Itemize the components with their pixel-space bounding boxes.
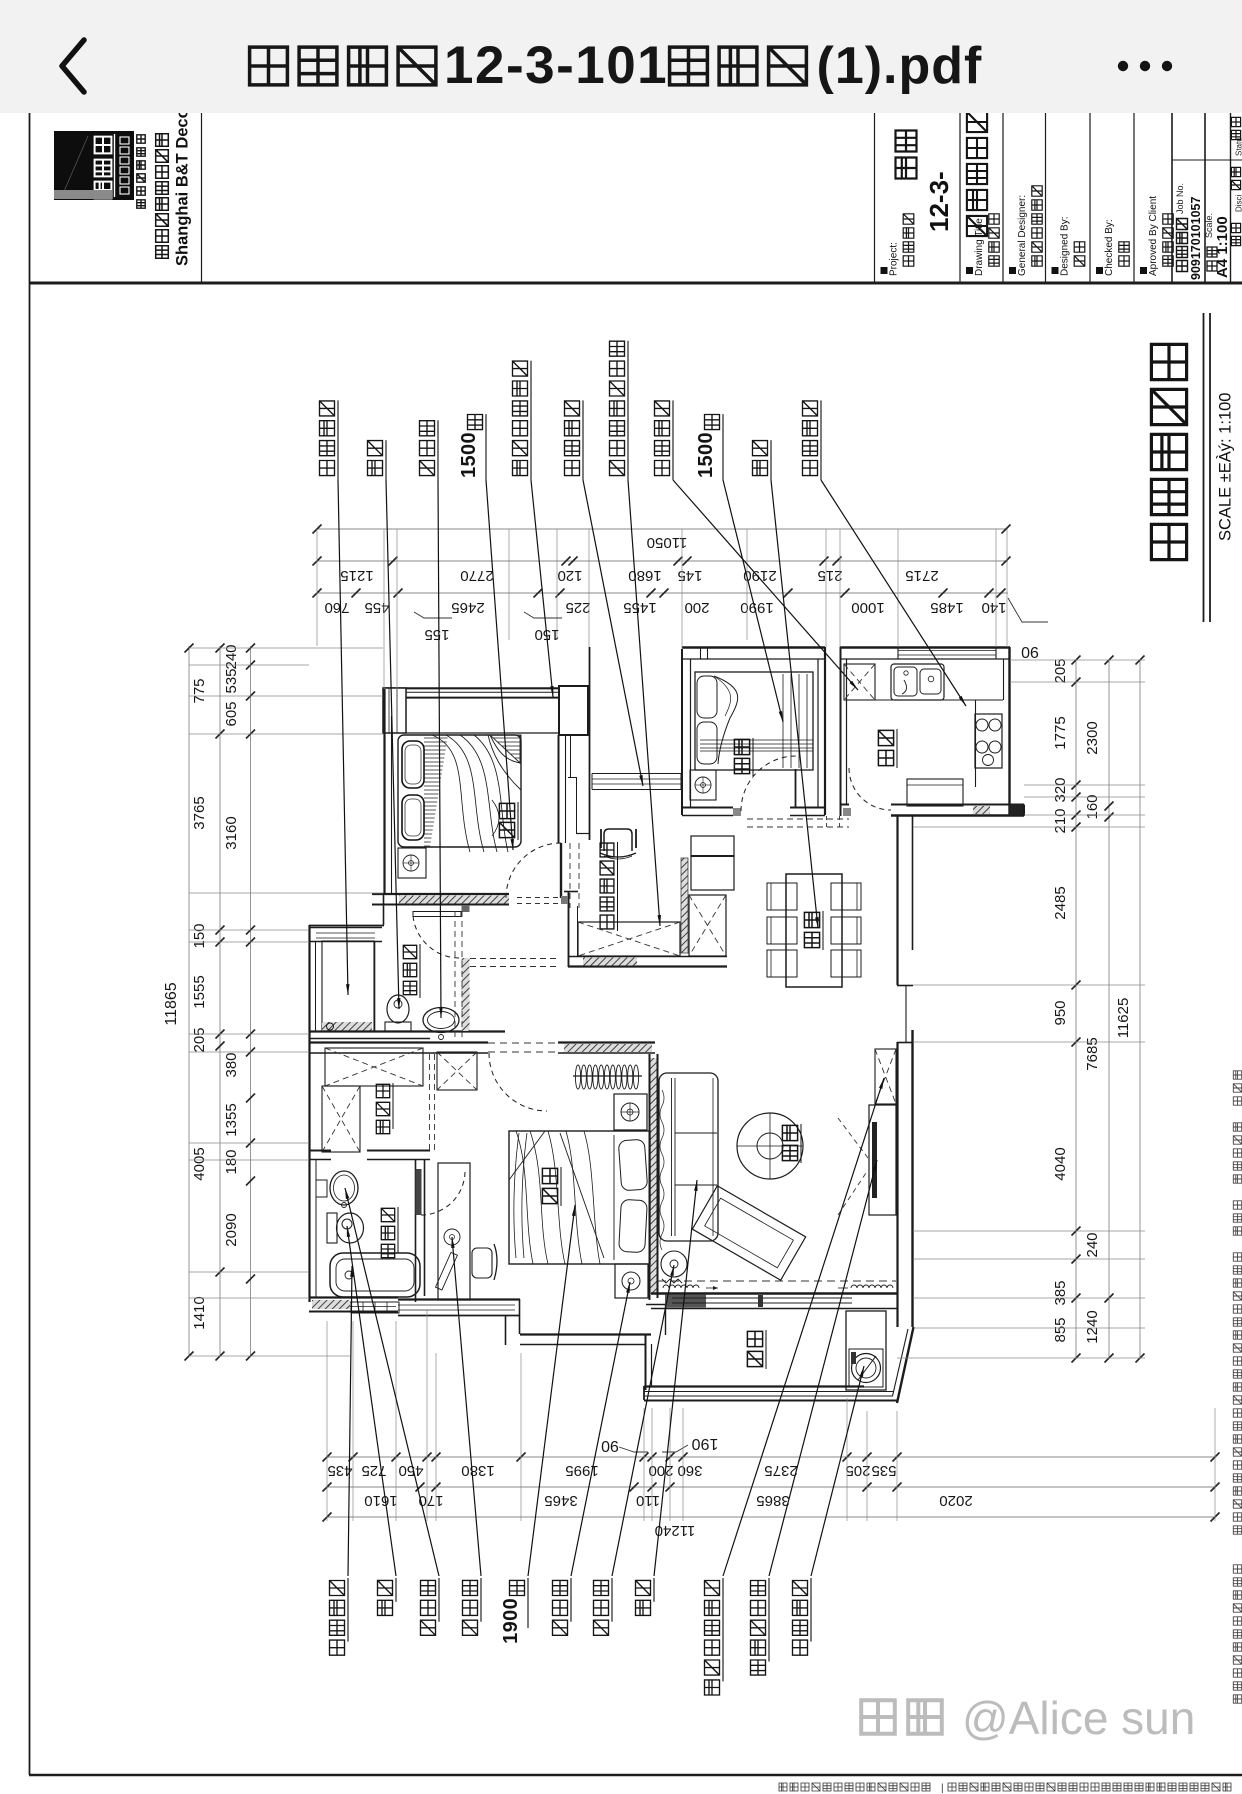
footer tiny notes row bbox=[779, 1783, 787, 1791]
sheet left border bbox=[29, 112, 31, 1775]
dining table bbox=[786, 874, 842, 987]
master wardrobe box bbox=[437, 1052, 477, 1090]
svg-text:950: 950 bbox=[1052, 1000, 1069, 1025]
corridor dashed lines bbox=[454, 911, 456, 1040]
svg-text:SCALE ±EÀý: 1:100: SCALE ±EÀý: 1:100 bbox=[1216, 393, 1235, 541]
TV cabinet bbox=[869, 1105, 896, 1215]
svg-text:2465: 2465 bbox=[451, 599, 484, 616]
svg-text:1610: 1610 bbox=[364, 1492, 397, 1509]
study hatch wall strip bbox=[681, 858, 688, 953]
svg-text:11050: 11050 bbox=[647, 534, 688, 551]
svg-text:205: 205 bbox=[191, 1027, 208, 1052]
master hanger rail bbox=[573, 1075, 642, 1077]
kitchen walls bbox=[840, 647, 842, 816]
top label 定制衣柜 bbox=[565, 401, 580, 476]
svg-text:855: 855 bbox=[1052, 1317, 1069, 1342]
svg-text:1455: 1455 bbox=[623, 599, 656, 616]
svg-text:Project:: Project: bbox=[889, 242, 900, 276]
stove bbox=[975, 714, 1002, 768]
top label 现场制作收纳柜 bbox=[610, 341, 625, 475]
bedroom2 nightstand bbox=[690, 770, 716, 800]
desk 电脑桌 bbox=[438, 1163, 470, 1300]
kitchen door swing bbox=[849, 768, 891, 810]
balcony south band bbox=[644, 1385, 864, 1387]
svg-text:1555: 1555 bbox=[191, 975, 208, 1008]
top label 飘窗做写字台 bbox=[513, 361, 528, 476]
svg-text:5: 5 bbox=[458, 455, 480, 466]
svg-text:Job No.: Job No. bbox=[1175, 183, 1185, 214]
title col Designed By bbox=[1052, 267, 1059, 274]
svg-text:385: 385 bbox=[1052, 1280, 1069, 1305]
study closet right X bbox=[689, 895, 726, 956]
svg-text:2715: 2715 bbox=[905, 567, 938, 584]
bedroom2 label 次卧 bbox=[734, 758, 749, 773]
top extension lines bbox=[316, 529, 318, 646]
title block column dividers bbox=[874, 112, 876, 283]
svg-text:760: 760 bbox=[324, 599, 349, 616]
title col Scale bbox=[1207, 261, 1217, 271]
svg-text:605: 605 bbox=[223, 701, 240, 726]
bedroom1 west wall bbox=[383, 689, 385, 893]
svg-text:2485: 2485 bbox=[1052, 886, 1069, 919]
top label 1500床 bbox=[458, 415, 483, 479]
bottom label 成品浴缸 bbox=[330, 1581, 345, 1656]
left dimension chain lines bbox=[188, 646, 190, 1356]
svg-text:3465: 3465 bbox=[544, 1492, 577, 1509]
title col Checked By bbox=[1096, 267, 1103, 274]
svg-text:450: 450 bbox=[398, 1462, 423, 1479]
bottom label 马桶 bbox=[378, 1580, 393, 1615]
corridor dashes to dining bbox=[747, 818, 849, 820]
dining chairs bbox=[767, 883, 797, 910]
svg-text:Scale.: Scale. bbox=[1204, 213, 1214, 238]
bathroom1 south wall bbox=[309, 1030, 505, 1032]
bedroom1 bed 1500 bbox=[398, 735, 521, 847]
storage cabinet boxes bbox=[691, 836, 734, 856]
bottom chain ticks bbox=[323, 1453, 332, 1462]
bedroom2 south wall bbox=[682, 807, 733, 809]
bottom label 床头柜 bbox=[553, 1580, 568, 1635]
svg-text:2090: 2090 bbox=[223, 1213, 240, 1246]
svg-text:0: 0 bbox=[500, 1598, 522, 1609]
top label 定制橱柜 bbox=[803, 401, 818, 476]
entry east wall column bbox=[589, 647, 591, 840]
watermark 知乎 @Alice sun bbox=[861, 1700, 895, 1734]
svg-text:0: 0 bbox=[458, 444, 480, 455]
svg-text:90: 90 bbox=[1021, 643, 1039, 660]
svg-text:320: 320 bbox=[1052, 777, 1069, 802]
bedroom1 label 卧室 bbox=[499, 822, 514, 837]
study south wall bbox=[568, 956, 727, 958]
bathroom1 west wall bbox=[308, 925, 310, 1038]
left extension lines bbox=[189, 647, 383, 649]
title col Project bbox=[881, 267, 888, 274]
svg-text:Checked By:: Checked By: bbox=[1104, 219, 1115, 276]
svg-text:1240: 1240 bbox=[1084, 1310, 1101, 1343]
svg-text:4005: 4005 bbox=[191, 1147, 208, 1180]
shoe cabinet bbox=[875, 1049, 896, 1104]
bath2 toilet bbox=[327, 1213, 337, 1243]
title col Job No bbox=[1177, 261, 1188, 272]
bath2 east wall + door panel bbox=[415, 1160, 417, 1302]
bedroom1/bath south wall with hatch bbox=[372, 893, 509, 895]
master door swing bbox=[489, 1053, 547, 1111]
right chain ticks bbox=[1072, 656, 1081, 665]
header bar bbox=[0, 0, 1242, 113]
logo slogan tiny text bbox=[137, 135, 145, 143]
title col Status partial bbox=[1231, 117, 1240, 126]
bottom dimension chain lines bbox=[327, 1456, 1215, 1458]
bedroom2 door swing bbox=[741, 756, 796, 811]
title col General Designer bbox=[1009, 267, 1016, 274]
heating coil squiggles bbox=[663, 1285, 699, 1288]
title col Drawing Title bbox=[966, 267, 973, 274]
svg-text:1000: 1000 bbox=[851, 599, 884, 616]
svg-text:725: 725 bbox=[361, 1462, 386, 1479]
washer cabinet bbox=[846, 1311, 886, 1390]
svg-text:150: 150 bbox=[191, 923, 208, 948]
balcony west step bbox=[645, 1334, 647, 1390]
closet west wall bbox=[308, 1038, 310, 1160]
svg-text:1: 1 bbox=[500, 1633, 522, 1644]
svg-text:2020: 2020 bbox=[939, 1492, 972, 1509]
svg-text:1410: 1410 bbox=[191, 1296, 208, 1329]
bottom label 沙发 bbox=[636, 1580, 651, 1615]
bedroom1 nightstand bbox=[398, 848, 426, 878]
bath2 bathtub bbox=[330, 1253, 420, 1297]
nightstand A with flower bbox=[614, 1094, 647, 1130]
svg-text:1: 1 bbox=[458, 467, 480, 478]
top label 浴室柜 bbox=[420, 421, 435, 476]
svg-text:General Designer:: General Designer: bbox=[1017, 195, 1028, 276]
kitchen south wall bbox=[840, 804, 849, 806]
svg-text:Shanghai B&T Decorat: Shanghai B&T Decorat bbox=[174, 87, 192, 266]
balcony SE chamfer bbox=[897, 1327, 914, 1403]
svg-text:155: 155 bbox=[424, 626, 449, 643]
svg-text:5: 5 bbox=[695, 455, 717, 466]
toilet 1 bbox=[385, 1022, 411, 1031]
bathroom1 door panel + swing bbox=[413, 912, 461, 917]
bath2 sink bbox=[330, 1171, 358, 1205]
bath2 west wall bbox=[308, 1160, 310, 1302]
living label 客厅 bbox=[782, 1145, 797, 1160]
svg-text:160: 160 bbox=[1084, 794, 1101, 819]
bottom label 1900床 bbox=[500, 1580, 525, 1644]
master room label 卧室 bbox=[542, 1188, 557, 1203]
kitchen sink bbox=[891, 664, 944, 700]
top label 马桶 bbox=[368, 441, 383, 476]
entry cabinet 4-line band bbox=[592, 773, 681, 775]
top chain ticks bbox=[313, 557, 322, 566]
fridge X box bbox=[844, 664, 875, 700]
bottom label 洗手台 bbox=[421, 1580, 436, 1635]
dining east wall upper bbox=[896, 816, 898, 950]
kitchen lower cabinet bbox=[907, 779, 963, 806]
svg-text:Designed By:: Designed By: bbox=[1060, 217, 1071, 276]
balcony label 阳台 bbox=[747, 1351, 762, 1366]
svg-text:240: 240 bbox=[1084, 1232, 1101, 1257]
study desk chair bbox=[604, 829, 632, 851]
svg-text:140: 140 bbox=[981, 599, 1006, 616]
bottom label 电脑桌 bbox=[463, 1580, 478, 1635]
svg-text:9: 9 bbox=[500, 1621, 522, 1632]
kitchen label 厨房 bbox=[878, 750, 893, 765]
svg-text:110: 110 bbox=[636, 1492, 660, 1509]
closet sliding door dashes bbox=[517, 897, 564, 899]
svg-text:180: 180 bbox=[223, 1149, 240, 1174]
svg-text:360: 360 bbox=[677, 1462, 702, 1479]
svg-text:A4 1:100: A4 1:100 bbox=[1214, 216, 1231, 278]
svg-text:2300: 2300 bbox=[1084, 721, 1101, 754]
svg-text:1380: 1380 bbox=[461, 1462, 494, 1479]
svg-text:909170101057: 909170101057 bbox=[1189, 197, 1203, 280]
logo column divider bbox=[201, 112, 203, 283]
nightstand B with flower bbox=[615, 1264, 648, 1298]
svg-text:205: 205 bbox=[1052, 658, 1069, 683]
title block bottom rule bbox=[29, 282, 1242, 285]
bath2 south wall + window bbox=[309, 1296, 398, 1298]
closet label 衣帽间 bbox=[376, 1120, 389, 1133]
bottom label 现场制作鞋柜 bbox=[705, 1581, 720, 1696]
master bedroom south wall + bay bbox=[398, 1298, 520, 1300]
svg-text:|: | bbox=[941, 1783, 944, 1794]
vanity basin 1 bbox=[423, 1008, 459, 1033]
svg-text:12-3-101: 12-3-101 bbox=[444, 36, 668, 95]
svg-text:1: 1 bbox=[695, 467, 717, 478]
bath2 label 卫生间 bbox=[381, 1244, 394, 1257]
svg-text:0: 0 bbox=[695, 444, 717, 455]
top dimension chain lines bbox=[317, 528, 1007, 530]
bath2 north wall bbox=[309, 1150, 331, 1152]
bay inner face bbox=[406, 732, 558, 734]
svg-text:535: 535 bbox=[223, 668, 240, 693]
svg-text:215: 215 bbox=[817, 567, 842, 584]
study closet west L wall bbox=[568, 891, 570, 967]
svg-text:200: 200 bbox=[684, 599, 709, 616]
svg-text:11240: 11240 bbox=[655, 1522, 696, 1539]
closet wardrobe boxes bbox=[325, 1048, 423, 1086]
bedroom2 bed 1500 bbox=[695, 672, 813, 770]
svg-text:2770: 2770 bbox=[460, 567, 493, 584]
living floor dashed line bbox=[658, 1280, 896, 1282]
bedroom1 bay window band bbox=[383, 687, 588, 689]
top label 餐桌 bbox=[753, 441, 768, 476]
svg-text:775: 775 bbox=[191, 678, 208, 703]
right edge tiny vertical text bbox=[1233, 1071, 1241, 1079]
desk chair bbox=[472, 1248, 492, 1278]
sheet bottom border bbox=[29, 1774, 1242, 1776]
sofa bbox=[659, 1073, 718, 1241]
double rule beside drawing name bbox=[1203, 313, 1205, 622]
svg-text:11625: 11625 bbox=[1115, 998, 1132, 1039]
master east wall hatched bbox=[649, 1054, 651, 1300]
svg-text:2375: 2375 bbox=[764, 1462, 797, 1479]
svg-text:1485: 1485 bbox=[930, 599, 963, 616]
kitchen counter bbox=[847, 699, 1003, 701]
menu dots bbox=[1118, 61, 1128, 71]
svg-text:4040: 4040 bbox=[1052, 1147, 1069, 1180]
svg-text:Aproved By Client: Aproved By Client bbox=[1148, 196, 1159, 276]
svg-text:3765: 3765 bbox=[191, 796, 208, 829]
swing chair bbox=[737, 1113, 803, 1179]
svg-text:210: 210 bbox=[1052, 808, 1069, 833]
svg-text:1215: 1215 bbox=[340, 567, 373, 584]
svg-text:12-3-: 12-3- bbox=[924, 171, 954, 232]
svg-text:120: 120 bbox=[557, 567, 582, 584]
bathroom1 east door jamb bbox=[462, 905, 470, 912]
coffee table rotated bbox=[692, 1186, 805, 1280]
svg-text:11865: 11865 bbox=[163, 982, 180, 1025]
svg-text:0: 0 bbox=[458, 432, 480, 443]
outer wall step west of bedroom1 bbox=[383, 893, 385, 925]
bay window piers bbox=[383, 688, 406, 733]
bedroom2 box walls bbox=[681, 649, 683, 815]
svg-text:535: 535 bbox=[871, 1462, 896, 1479]
curtain wave master east bbox=[660, 1090, 664, 1250]
svg-text:1775: 1775 bbox=[1052, 716, 1069, 749]
svg-text:455: 455 bbox=[364, 599, 389, 616]
right extension lines bbox=[1010, 659, 1145, 661]
bottom label 成品电视柜 bbox=[751, 1581, 766, 1676]
svg-text:1680: 1680 bbox=[628, 567, 661, 584]
header title bbox=[250, 47, 288, 85]
master south step bbox=[505, 1315, 507, 1345]
svg-text:@Alice sun: @Alice sun bbox=[962, 1692, 1195, 1744]
bathroom1 shower enclosure bbox=[322, 941, 374, 1031]
master bed 1900 bbox=[509, 1131, 650, 1264]
drawing name 平面布置图 rotated bbox=[1151, 524, 1186, 559]
svg-text:Disci: Disci bbox=[1235, 194, 1242, 212]
dining label 餐厅 bbox=[804, 932, 819, 947]
top label 淋浴隔断 bbox=[320, 401, 335, 476]
bathroom1 west window band bbox=[309, 927, 382, 929]
right dimension chain lines bbox=[1075, 660, 1077, 1358]
svg-text:0: 0 bbox=[500, 1610, 522, 1621]
company name CN rotated bbox=[156, 134, 169, 147]
closet/master north wall bbox=[309, 1041, 488, 1043]
svg-text:3160: 3160 bbox=[223, 816, 240, 849]
svg-text:(1).pdf: (1).pdf bbox=[817, 37, 983, 95]
steps below bath2 bbox=[351, 1302, 399, 1313]
svg-text:145: 145 bbox=[677, 567, 702, 584]
closet-master partition dashed bbox=[429, 1054, 431, 1150]
bathroom1 label 卫生间 bbox=[403, 981, 416, 994]
top label 1500床 bbox=[695, 415, 720, 479]
svg-text:Statu: Statu bbox=[1235, 137, 1242, 156]
study label 书房衣帽间 bbox=[600, 915, 614, 929]
bottom label 洗衣机柜 bbox=[793, 1581, 808, 1656]
title col Approved By Client bbox=[1140, 267, 1147, 274]
svg-text:1355: 1355 bbox=[223, 1103, 240, 1136]
bottom label 落地灯 bbox=[594, 1580, 609, 1635]
floor lamp bbox=[661, 1251, 687, 1277]
living east wall bbox=[896, 1042, 898, 1327]
bedroom1 east wall bbox=[558, 735, 560, 843]
svg-text:190: 190 bbox=[692, 1435, 719, 1452]
study closet bottom X bbox=[578, 922, 680, 956]
back chevron bbox=[62, 40, 84, 92]
svg-text:225: 225 bbox=[565, 599, 590, 616]
svg-text:380: 380 bbox=[223, 1052, 240, 1077]
svg-text:3865: 3865 bbox=[756, 1492, 789, 1509]
bedroom1 door leaf + swing bbox=[560, 843, 562, 898]
living south wall / slider bbox=[651, 1292, 898, 1294]
svg-text:90: 90 bbox=[601, 1437, 619, 1454]
bottom extension lines bbox=[326, 1321, 328, 1521]
company logo block bbox=[54, 131, 134, 200]
top label 双门冰箱 bbox=[655, 401, 670, 476]
svg-text:1990: 1990 bbox=[740, 599, 773, 616]
left chain ticks bbox=[185, 644, 194, 653]
svg-text:0: 0 bbox=[695, 432, 717, 443]
